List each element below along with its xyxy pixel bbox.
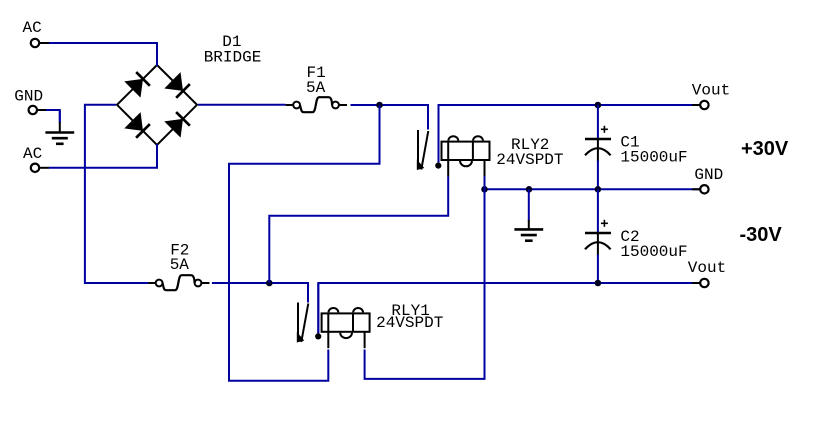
svg-text:-30V: -30V [740,224,783,246]
svg-text:AC: AC [23,19,42,37]
svg-text:+30V: +30V [741,138,789,160]
svg-text:GND: GND [694,166,723,184]
svg-text:Vout: Vout [692,81,730,99]
svg-text:15000uF: 15000uF [620,149,687,167]
svg-text:15000uF: 15000uF [620,243,687,261]
svg-text:Vout: Vout [688,259,726,277]
svg-text:5A: 5A [306,79,326,97]
svg-text:GND: GND [14,88,43,106]
svg-text:24VSPDT: 24VSPDT [496,151,563,169]
svg-text:24VSPDT: 24VSPDT [376,314,443,332]
svg-text:AC: AC [23,145,42,163]
svg-text:BRIDGE: BRIDGE [204,49,262,67]
svg-text:5A: 5A [170,256,190,274]
